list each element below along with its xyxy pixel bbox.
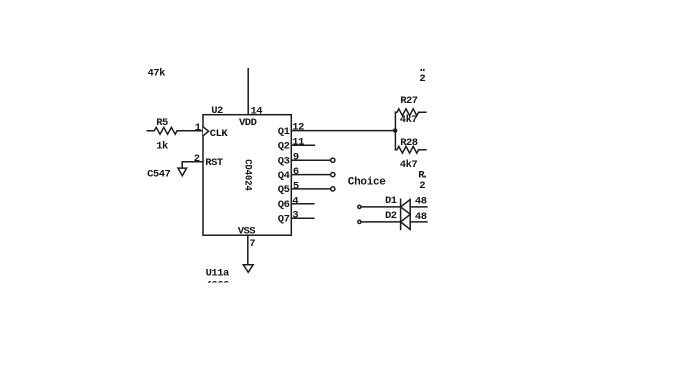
svg-text:D1: D1 <box>385 195 397 207</box>
value label 4k7 (R28) <box>400 159 418 171</box>
resistor R28 label <box>400 137 418 149</box>
svg-text:47k: 47k <box>148 68 166 80</box>
svg-text:48: 48 <box>415 196 427 208</box>
pin number 1 <box>195 122 201 134</box>
pin label RST <box>205 157 223 169</box>
value label 1k <box>156 141 168 153</box>
svg-text:Q4: Q4 <box>278 170 290 182</box>
wire Q3 pin 9 to open terminal <box>291 159 330 161</box>
pin number 3 <box>292 210 298 222</box>
svg-text:48: 48 <box>415 211 427 223</box>
diode D2 <box>401 214 411 229</box>
wire D1 anode-side lead <box>361 206 401 208</box>
clock wedge CLK input <box>203 127 209 136</box>
svg-text:R27: R27 <box>400 95 418 107</box>
svg-text:Q6: Q6 <box>278 199 290 211</box>
wire D2 anode-side lead <box>361 221 401 223</box>
IC U2 CD4024 body <box>203 115 291 236</box>
svg-text:5: 5 <box>293 180 299 192</box>
arrow terminal on RST net <box>178 168 187 176</box>
open terminal circle D1 <box>358 205 361 208</box>
svg-text:D2: D2 <box>385 210 397 222</box>
pin label Q5 <box>278 184 290 196</box>
wire D2 output <box>410 221 427 223</box>
wire junction up to R27 <box>394 112 396 130</box>
diode D2 label <box>385 210 397 222</box>
wire D1 output <box>410 206 427 208</box>
open terminal circle Q5 <box>331 187 335 191</box>
pin number 4 <box>292 195 298 207</box>
pin label Q6 <box>278 199 290 211</box>
svg-text:U11a: U11a <box>206 267 230 279</box>
pin number 9 <box>293 151 299 163</box>
wire Q2 pin 11 stub <box>291 144 314 146</box>
svg-text:2: 2 <box>419 180 425 192</box>
wire Q1 pin 12 to junction <box>291 130 395 132</box>
pin label Q4 <box>278 170 290 182</box>
partial label fragment above (masked) <box>420 69 424 71</box>
svg-text:Q2: Q2 <box>278 141 290 153</box>
pin number 12 <box>292 122 304 134</box>
svg-text:Q5: Q5 <box>278 184 290 196</box>
svg-text:1k: 1k <box>156 141 168 153</box>
svg-text:11: 11 <box>292 136 304 148</box>
svg-text:1: 1 <box>195 122 201 134</box>
pin number 7 <box>249 238 255 250</box>
pin number 2 <box>194 153 200 165</box>
svg-text:12: 12 <box>292 122 304 134</box>
op-amp U2 label <box>211 105 223 117</box>
pin label CLK <box>210 128 229 140</box>
svg-text:9: 9 <box>293 151 299 163</box>
svg-text:4k7: 4k7 <box>400 114 418 126</box>
wire RST to arrow <box>182 162 203 168</box>
common cathode bar D1/D2 <box>400 199 402 229</box>
wire VDD supply vertical into pin 14 <box>247 69 249 115</box>
value label CD4024 (rotated) <box>242 159 253 191</box>
svg-text:CD4024: CD4024 <box>242 159 253 191</box>
value label 48 (D1, partial 4148) <box>415 196 427 208</box>
transistor label C547 (partial BC547) <box>147 169 170 181</box>
wire VSS pin 7 to ground <box>247 235 249 265</box>
svg-text:R5: R5 <box>156 117 168 129</box>
open terminal circle Q3 <box>331 158 335 162</box>
svg-text:2: 2 <box>194 153 200 165</box>
resistor R27 label <box>400 95 418 107</box>
junction node Q1/R27/R28 <box>393 128 397 132</box>
value label 48 (D2, partial 4148) <box>415 211 427 223</box>
svg-text:R28: R28 <box>400 137 418 149</box>
resistor R5 label <box>156 117 168 129</box>
pin label VDD <box>239 117 257 129</box>
diode D1 label <box>385 195 397 207</box>
partial label 2 (right, masked) <box>419 180 425 192</box>
pin label Q7 <box>278 213 290 225</box>
pin number 6 <box>293 166 299 178</box>
svg-text:7: 7 <box>249 238 255 250</box>
svg-text:4: 4 <box>292 195 298 207</box>
svg-text:VSS: VSS <box>238 225 256 237</box>
svg-text:Q3: Q3 <box>278 155 290 167</box>
wire Q5 pin 5 to open terminal <box>291 188 330 190</box>
svg-text:6: 6 <box>293 166 299 178</box>
svg-text:C547: C547 <box>147 169 170 181</box>
wire Q6 pin 4 stub <box>291 203 314 205</box>
partial label R (right, masked) <box>418 170 426 182</box>
value label 47k (partial of masked resistor) <box>148 68 166 80</box>
svg-text:3: 3 <box>292 210 298 222</box>
svg-text:VDD: VDD <box>239 117 257 129</box>
diode D1 <box>401 200 411 215</box>
svg-text:4k7: 4k7 <box>400 159 418 171</box>
net label Choice <box>348 176 387 188</box>
pin label Q3 <box>278 155 290 167</box>
pin number 5 <box>293 180 299 192</box>
pin number 11 <box>292 136 304 148</box>
open terminal circle D2 <box>358 220 361 223</box>
wire junction down to R28 <box>394 131 396 150</box>
svg-text:Q7: Q7 <box>278 213 290 225</box>
pin label VSS <box>238 225 256 237</box>
gate label U11a (partial) <box>206 267 230 279</box>
svg-text:14: 14 <box>251 106 263 118</box>
open terminal circle Q4 <box>331 173 335 177</box>
ground symbol VSS <box>243 265 253 273</box>
resistor R5 <box>147 127 203 134</box>
resistor R27 <box>395 109 426 116</box>
value label 4k7 (R27) <box>400 114 418 126</box>
pin label Q2 <box>278 141 290 153</box>
svg-text:CLK: CLK <box>210 128 229 140</box>
wire Q4 pin 6 to open terminal <box>291 174 330 176</box>
svg-text:2: 2 <box>419 73 425 85</box>
svg-text:Choice: Choice <box>348 176 387 188</box>
svg-text:Q1: Q1 <box>278 126 290 138</box>
pin number 14 <box>251 106 263 118</box>
svg-text:RST: RST <box>205 157 223 169</box>
wire Q7 pin 3 stub <box>291 217 314 219</box>
partial label 2 (top right, masked) <box>419 73 425 85</box>
value label 4066 (partial, clipped) <box>200 279 240 292</box>
resistor R28 <box>395 146 426 153</box>
pin label Q1 <box>278 126 290 138</box>
